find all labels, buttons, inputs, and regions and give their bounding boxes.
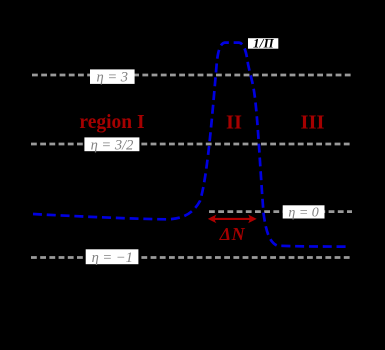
white box for peak label 1/Pi — [248, 38, 278, 49]
white box for label eta = -1 — [86, 249, 139, 264]
white box for label eta = 3 — [90, 69, 135, 84]
svg-text:η = 3/2: η = 3/2 — [91, 137, 134, 153]
gray level labels — [91, 69, 319, 265]
red double-headed arrow (spike width Delta N) — [208, 215, 257, 224]
white box for label eta = 3/2 — [84, 137, 139, 151]
svg-text:η = −1: η = −1 — [92, 250, 133, 266]
svg-text:III: III — [301, 111, 325, 133]
svg-text:η = 3: η = 3 — [97, 69, 128, 85]
blue dashed curve eta(N) with spike — [33, 43, 348, 247]
svg-text:region I: region I — [79, 112, 144, 133]
white box for label eta = 0 — [283, 205, 325, 218]
svg-text:II: II — [226, 111, 242, 133]
svg-text:ΔN: ΔN — [219, 224, 246, 244]
dashed level line eta = 3/2 — [31, 143, 352, 146]
red region labels — [79, 111, 324, 244]
dashed level line eta = 3 — [32, 74, 353, 77]
svg-text:1/Π: 1/Π — [253, 36, 275, 51]
dashed level line eta = -1 — [31, 256, 352, 259]
svg-text:η = 0: η = 0 — [288, 206, 318, 221]
dashed level line eta = 0 — [209, 210, 352, 213]
